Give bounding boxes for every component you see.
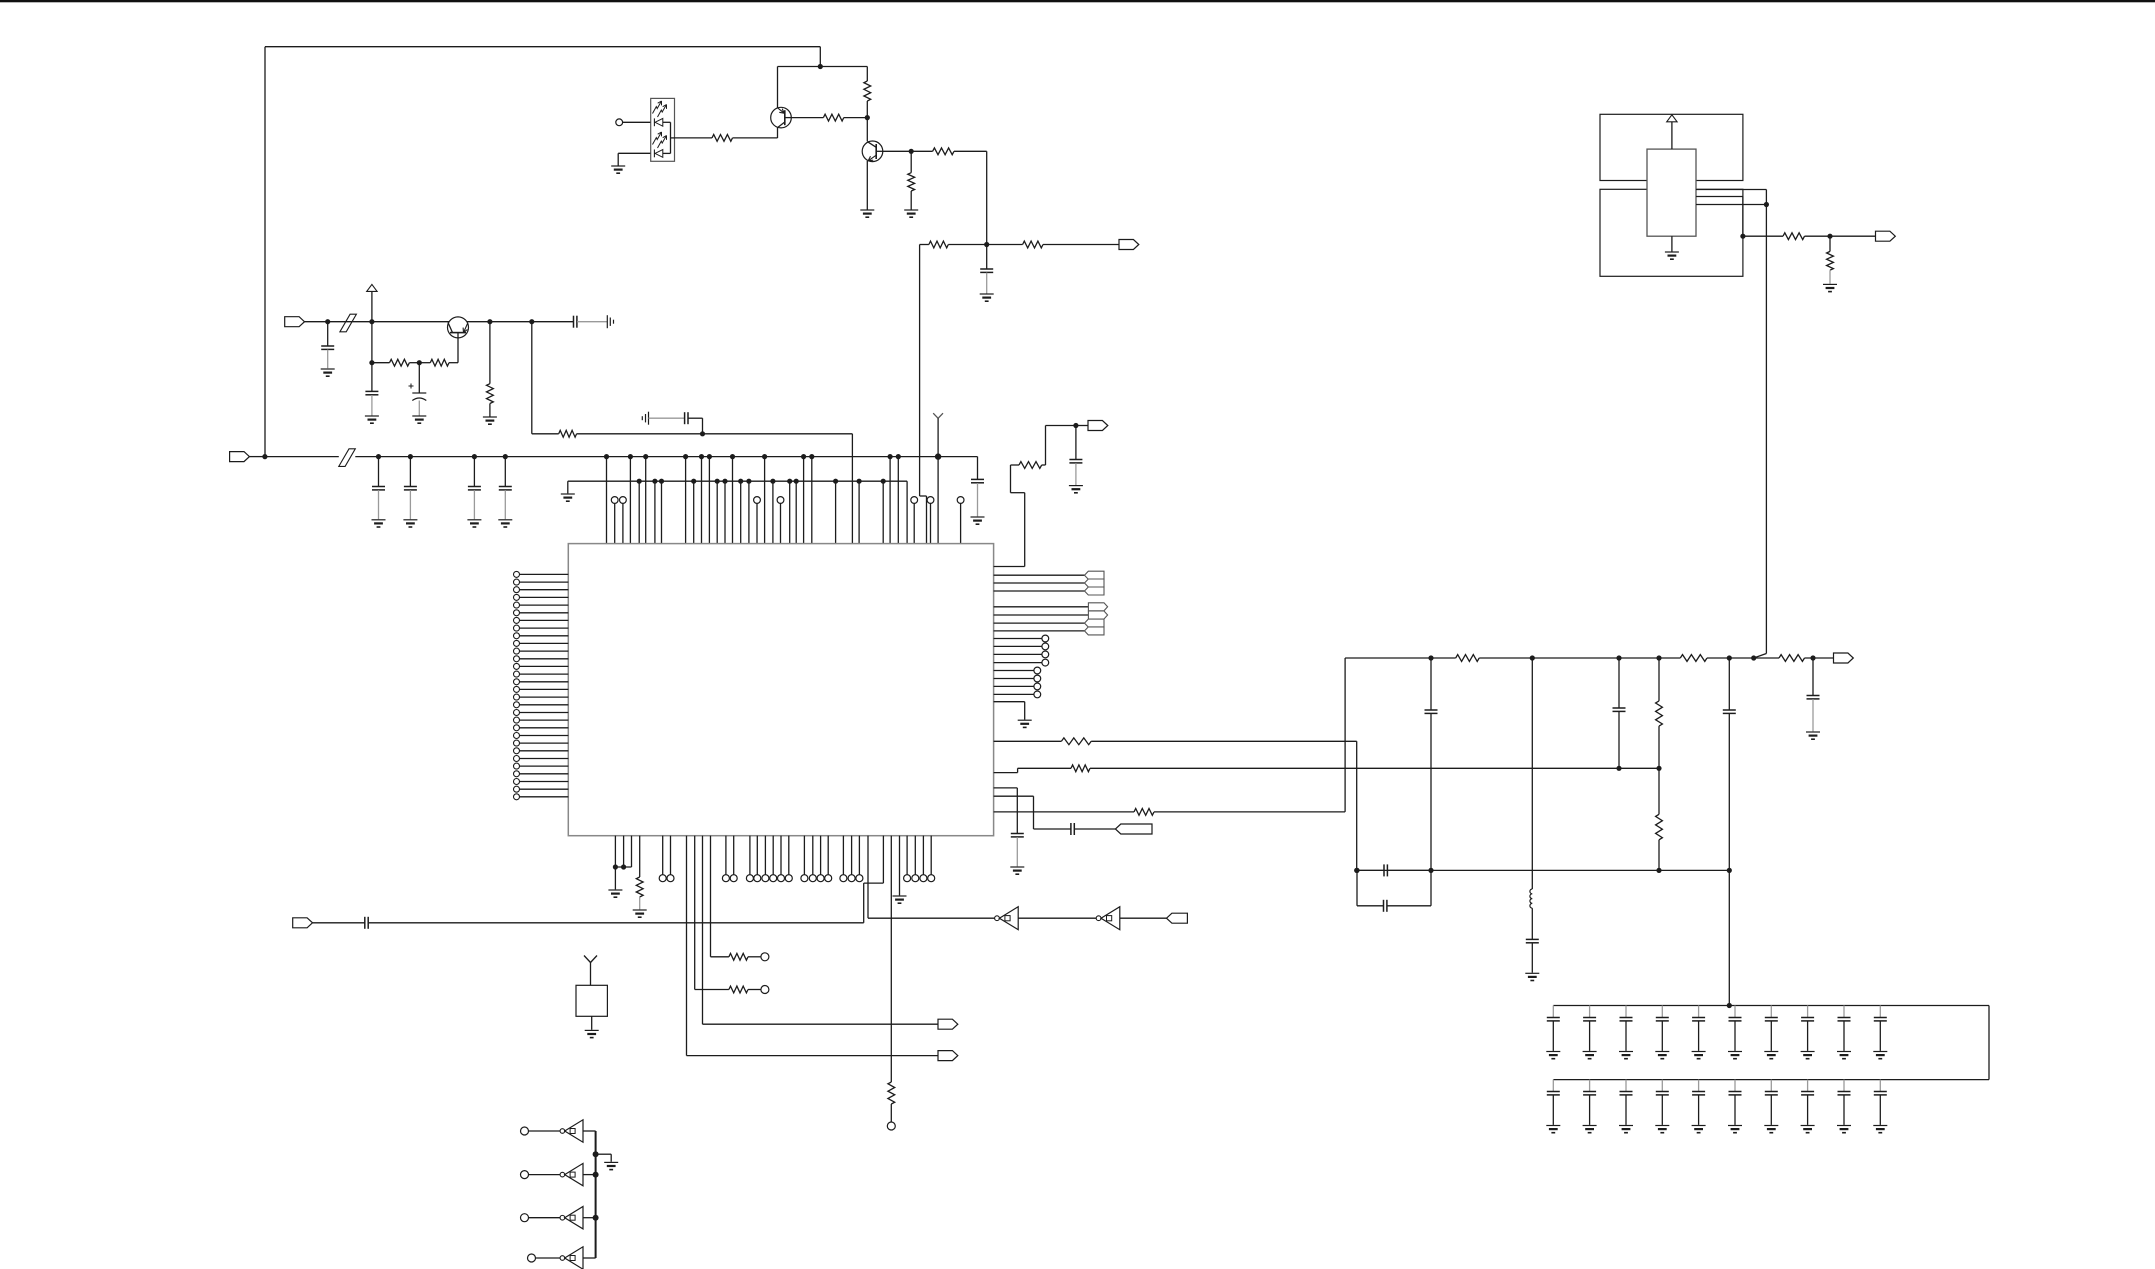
resistor R2 interstage xyxy=(791,114,867,121)
optocoupler U2 xyxy=(651,98,675,161)
bus tag group1 1 xyxy=(994,579,1104,587)
pin NC bottom 17 xyxy=(904,836,911,882)
capacitor C29 xyxy=(1807,658,1820,731)
capacitor bank top C38 xyxy=(1837,1006,1851,1059)
wire rail2 pin 11 xyxy=(833,479,838,544)
ground C22 xyxy=(1010,867,1024,874)
port tag VCC input xyxy=(285,317,305,327)
ground Y2 xyxy=(585,1030,599,1037)
port tag AUX xyxy=(1115,824,1152,834)
pin NC right a3 xyxy=(994,659,1049,666)
resistor R8 bias xyxy=(372,359,422,366)
capacitor bank bottom C46 xyxy=(1764,1080,1778,1133)
capacitor C1 xyxy=(321,322,334,369)
bus tag group2l 0 xyxy=(994,619,1104,627)
wire rail2 pin 10 xyxy=(794,479,799,544)
wire to cap bank xyxy=(1728,870,1730,1005)
ground C21 xyxy=(1069,486,1083,493)
wire C6 to node xyxy=(702,418,704,434)
inverter U5c xyxy=(521,1207,596,1229)
resistor R19 xyxy=(1656,768,1663,873)
wire line3 up xyxy=(1344,658,1346,812)
wire pin to inv net xyxy=(867,836,869,919)
ground C10 xyxy=(372,520,386,527)
wire rail1 pin 3 xyxy=(683,454,688,544)
module box2 xyxy=(1600,189,1743,276)
module box1 xyxy=(1600,114,1743,180)
crystal Y2 box xyxy=(576,985,607,1016)
wire rail 658 xyxy=(1345,657,1833,659)
resistor R15 line3 xyxy=(994,809,1346,816)
ground bottom right xyxy=(893,896,907,903)
wire rail2 pin 13 xyxy=(881,479,886,544)
wire pin jog xyxy=(864,836,884,923)
port tag SIG out xyxy=(1167,913,1188,923)
wire Q2 base node xyxy=(883,149,914,154)
wire rail1 pin 11 xyxy=(896,454,901,544)
wire VDD stem xyxy=(369,291,374,365)
wire + junction node A xyxy=(818,47,823,69)
wire to Q3 xyxy=(328,321,448,323)
pin NC bottom 18 xyxy=(912,836,919,882)
transistor Q3 xyxy=(448,317,469,338)
wire rail2 pin 12 xyxy=(857,479,862,544)
transistor Q1 xyxy=(771,107,792,128)
bus tag group2l 1 xyxy=(994,627,1104,635)
capacitor C5 xyxy=(980,245,993,294)
wire Q2 emitter xyxy=(866,161,868,210)
power arrow osc xyxy=(1667,115,1677,122)
capacitor bank top C36 xyxy=(1764,1006,1778,1059)
wire collector rail xyxy=(778,66,868,68)
capacitor bank bottom C42 xyxy=(1619,1080,1633,1133)
wire rail2 pin 4 xyxy=(715,479,720,544)
wire rail2 right end pin xyxy=(906,481,908,543)
wire net VIN top horizontal xyxy=(265,46,820,48)
port tag main input xyxy=(230,452,250,462)
wire Q3 base xyxy=(457,338,459,363)
wire rail2 pin 2 xyxy=(659,479,664,544)
capacitor bank bottom C48 xyxy=(1837,1080,1851,1133)
wire rail2 pin 7 xyxy=(746,479,751,544)
port tag OUT right xyxy=(1834,653,1854,663)
resistor R7 xyxy=(987,241,1119,248)
wire net VIN left vertical xyxy=(264,47,266,457)
ground L1 xyxy=(1525,973,1539,980)
capacitor C21 xyxy=(1069,426,1088,486)
ground C12 xyxy=(467,520,481,527)
capacitor C26 xyxy=(1357,864,1431,876)
ground R3 xyxy=(904,210,918,217)
transistor Q2 xyxy=(862,141,883,162)
bus tag group1 2 xyxy=(994,587,1104,595)
wire rail2 left end xyxy=(567,481,569,493)
wire rail2 pin 9 xyxy=(787,479,792,544)
pin NC bottom 10 xyxy=(801,836,808,882)
pin NC bottom 11 xyxy=(809,836,816,882)
pin NC top 5 xyxy=(927,497,934,544)
oscillator Y1 inner box xyxy=(1647,149,1696,236)
pin NC right b1 xyxy=(994,675,1041,682)
pin NC bottom 4 xyxy=(746,836,753,882)
pin NC bottom 14 xyxy=(840,836,847,882)
wire rail1 pin 0 xyxy=(604,454,609,544)
pin NC bottom 5 xyxy=(754,836,761,882)
wire gnd pins group xyxy=(613,836,632,890)
wire IC pin x852 vertical xyxy=(851,434,853,544)
wire opto cathode xyxy=(618,153,650,165)
wire rail2 pin 1 xyxy=(652,479,657,544)
pin NC bottom 19 xyxy=(920,836,927,882)
capacitor bank top C32 xyxy=(1619,1006,1633,1059)
pin NC bottom 2 xyxy=(722,836,729,882)
wire osc gnd stem xyxy=(1671,236,1673,251)
wire rail1 pin 5 xyxy=(707,454,712,544)
capacitor C27 xyxy=(1613,658,1626,768)
wire gnd pin right xyxy=(899,836,901,896)
bus tag group2r 1 xyxy=(994,611,1108,619)
pin NC right b0 xyxy=(994,667,1041,674)
wire capbank rail bottom xyxy=(1553,1079,1989,1081)
pin NC bottom 8 xyxy=(778,836,785,882)
wire Q3 out down xyxy=(531,322,533,434)
pin NC top 4 xyxy=(911,497,918,544)
pin NC bottom 15 xyxy=(848,836,855,882)
resistor R21 pulldown xyxy=(1827,236,1834,284)
capacitor C23 series xyxy=(994,796,1116,835)
resistor R12 reset xyxy=(994,423,1079,567)
wire Q2 collector xyxy=(866,118,868,142)
ground C3 xyxy=(412,416,426,423)
net label slash lower xyxy=(339,449,356,467)
wire Q1 emitter xyxy=(777,127,779,138)
ground rail2 xyxy=(561,494,575,501)
wire buffer bus xyxy=(593,1131,599,1258)
wire rail1 pin 6 xyxy=(730,454,735,544)
capacitor C11 bulk xyxy=(404,454,417,519)
ground IC right xyxy=(1018,720,1032,727)
chassis ground left xyxy=(642,412,648,425)
pin NC bottom 1 xyxy=(667,836,674,882)
resistor R6 xyxy=(920,241,987,248)
wire rail1 pin 4 xyxy=(699,454,704,544)
wire rail2 pin 6 xyxy=(738,479,743,544)
net label slash upper xyxy=(340,314,357,332)
inverter U3 xyxy=(995,907,1019,930)
wire row3 long xyxy=(703,836,939,1024)
ground C13 xyxy=(498,520,512,527)
resistor R9 bias2 xyxy=(419,359,458,366)
pin NC bottom 0 xyxy=(659,836,666,882)
wire to inverter U3 xyxy=(868,917,995,919)
resistor R16 xyxy=(1680,655,1707,662)
IC U1 main processor xyxy=(568,544,993,836)
chassis ground right xyxy=(607,315,613,328)
power arrow VDD xyxy=(367,284,377,291)
capacitor bank bottom C47 xyxy=(1801,1080,1815,1133)
wire rail1 pin 7 xyxy=(762,454,767,544)
capacitor bank top C37 xyxy=(1801,1006,1815,1059)
capacitor C50 series xyxy=(313,917,864,929)
inductor L1 with cap xyxy=(1526,658,1539,973)
resistor R3 to ground xyxy=(908,151,915,209)
wire capbank right edge xyxy=(1988,1006,1990,1080)
resistor R10 load xyxy=(487,322,494,417)
pin NC right b3 xyxy=(994,691,1041,698)
ground C11 xyxy=(403,520,417,527)
pin R25 end xyxy=(887,1122,895,1130)
pin NC top 1 xyxy=(620,497,627,544)
pin opto anode input xyxy=(616,119,651,126)
wire Q3 out xyxy=(469,319,535,324)
wire input junction xyxy=(249,454,267,459)
resistor R5 series out xyxy=(911,148,987,155)
capacitor C3 polarized xyxy=(409,363,427,416)
ground bottom group xyxy=(608,890,622,897)
capacitor bank bottom C41 xyxy=(1583,1080,1597,1133)
wire osc pin3 xyxy=(1696,202,1769,207)
wire buffer gnd xyxy=(596,1154,612,1162)
wire rail1 pin 2 xyxy=(643,454,648,544)
pin NC top 2 xyxy=(754,497,761,544)
ground osc xyxy=(1665,252,1679,259)
pin NC bottom 7 xyxy=(770,836,777,882)
ground buffers xyxy=(604,1162,618,1169)
ground C29 xyxy=(1806,732,1820,739)
resistor R17 xyxy=(1779,655,1805,662)
wire row4 long xyxy=(687,836,939,1056)
resistor R4 pullup xyxy=(864,67,871,121)
capacitor C25 loop xyxy=(1354,868,1431,912)
inverter U5a xyxy=(521,1120,596,1142)
ground C1 xyxy=(321,369,335,376)
wire rail2 main xyxy=(568,480,907,482)
wire osc pin2 xyxy=(1696,197,1746,239)
wire IC gnd pin xyxy=(994,702,1025,720)
port tag CLK xyxy=(1876,231,1896,241)
resistor R16a xyxy=(1456,655,1480,662)
capacitor C10 bulk xyxy=(372,454,385,519)
wire U4 out xyxy=(1120,917,1167,919)
capacitor bank bottom C43 xyxy=(1655,1080,1669,1133)
capacitor C13 bulk xyxy=(499,454,512,519)
capacitor bank top C39 xyxy=(1873,1006,1887,1059)
pin NC top 3 xyxy=(777,497,784,544)
port tag DATA1 xyxy=(938,1019,958,1029)
capacitor bank top C35 xyxy=(1728,1006,1742,1059)
wire rail1 pin 8 xyxy=(801,454,806,544)
pin NC bottom 9 xyxy=(785,836,792,882)
capacitor bank bottom C49 xyxy=(1873,1080,1887,1133)
resistor R22 xyxy=(636,836,643,910)
ground C20 xyxy=(971,517,985,524)
ground R21 xyxy=(1823,284,1837,291)
wire node B to IC pin xyxy=(920,245,927,544)
ground opto xyxy=(611,166,625,173)
pin NC bottom 6 xyxy=(762,836,769,882)
wire osc clk down xyxy=(1754,190,1767,659)
wire node B vertical xyxy=(984,151,989,247)
capacitor bank bottom C44 xyxy=(1692,1080,1706,1133)
pin NC right b2 xyxy=(994,683,1041,690)
resistor R11 xyxy=(532,430,705,437)
capacitor bank bottom C45 xyxy=(1728,1080,1742,1133)
resistor R23 row1 xyxy=(711,836,769,961)
pin NC right a1 xyxy=(994,643,1049,650)
wire osc vdd xyxy=(1671,122,1673,149)
pin NC bottom 16 xyxy=(856,836,863,882)
pin NC bottom 3 xyxy=(730,836,737,882)
port tag RESET xyxy=(1088,421,1108,431)
ground R10 xyxy=(483,417,497,424)
top border bar xyxy=(0,0,2155,2)
inverter U5d xyxy=(528,1247,596,1269)
capacitor C22 xyxy=(994,788,1024,867)
resistor R24 row2 xyxy=(695,836,769,994)
pin NC right a0 xyxy=(994,635,1049,642)
wire to IC pin x852 xyxy=(703,433,853,435)
port tag TXD xyxy=(1119,240,1139,250)
pin NC bottom 20 xyxy=(928,836,935,882)
capacitor C6 series xyxy=(649,412,703,424)
resistor R14 line2 xyxy=(994,765,1662,773)
port tag DATA2 xyxy=(938,1051,958,1061)
wire rail1 main xyxy=(355,456,977,458)
wire capbank rail top xyxy=(1553,1003,1989,1008)
wire Q1 collector xyxy=(777,67,779,108)
capacitor C2 xyxy=(365,363,378,416)
bus tag group2r 0 xyxy=(994,603,1108,611)
inverter U5b xyxy=(521,1163,596,1185)
resistor R20 clk xyxy=(1743,233,1876,240)
wire rail1 pin 1 xyxy=(628,454,633,544)
pin NC right a2 xyxy=(994,651,1049,658)
wire osc pin1 xyxy=(1696,189,1766,191)
capacitor bank top C31 xyxy=(1583,1006,1597,1059)
pin NC top 0 xyxy=(611,497,618,544)
capacitor bank top C33 xyxy=(1655,1006,1669,1059)
capacitor C4 series xyxy=(532,316,608,328)
wire rail2 pin 3 xyxy=(691,479,696,544)
capacitor C24 on x1431 xyxy=(1425,658,1438,873)
wire rail1 a xyxy=(265,456,339,458)
antenna pin OSC xyxy=(933,413,943,543)
resistor R1 base xyxy=(675,135,778,142)
capacitor C12 bulk xyxy=(468,454,481,519)
wire rail2 pin 5 xyxy=(722,479,727,544)
pin NC bottom 13 xyxy=(825,836,832,882)
IC left pins with circles xyxy=(514,571,569,799)
port tag SIG input xyxy=(293,918,313,928)
antenna Y2 top xyxy=(584,956,597,986)
wire rail2 pin 8 xyxy=(770,479,775,544)
wire line1 down xyxy=(1354,741,1359,873)
wire rail 870 xyxy=(1357,869,1729,871)
ground Q2 emitter xyxy=(860,210,874,217)
wire rail2 pin 0 xyxy=(637,479,642,544)
wire rail1 pin 9 xyxy=(809,454,814,544)
resistor R18 xyxy=(1656,658,1663,768)
capacitor bank bottom C40 xyxy=(1546,1080,1560,1133)
pin NC top 6 xyxy=(957,497,964,544)
inverter U4 xyxy=(1096,907,1120,930)
pin NC bottom 12 xyxy=(817,836,824,882)
resistor R25 xyxy=(888,836,895,1122)
resistor R13 line1 xyxy=(994,738,1357,745)
ground C2 xyxy=(365,416,379,423)
wire U3 to U4 xyxy=(1018,917,1096,919)
capacitor C20 rail end xyxy=(971,457,984,517)
ground R22 xyxy=(633,910,647,917)
capacitor C28 xyxy=(1723,658,1736,873)
bus tag group1 0 xyxy=(994,571,1104,579)
wire rail1 pin 10 xyxy=(888,454,893,544)
wire to C1 node xyxy=(305,319,331,324)
capacitor bank top C30 xyxy=(1546,1006,1560,1059)
capacitor bank top C34 xyxy=(1692,1006,1706,1059)
ground C5 xyxy=(980,294,994,301)
wire Y2 gnd stem xyxy=(591,1016,593,1030)
